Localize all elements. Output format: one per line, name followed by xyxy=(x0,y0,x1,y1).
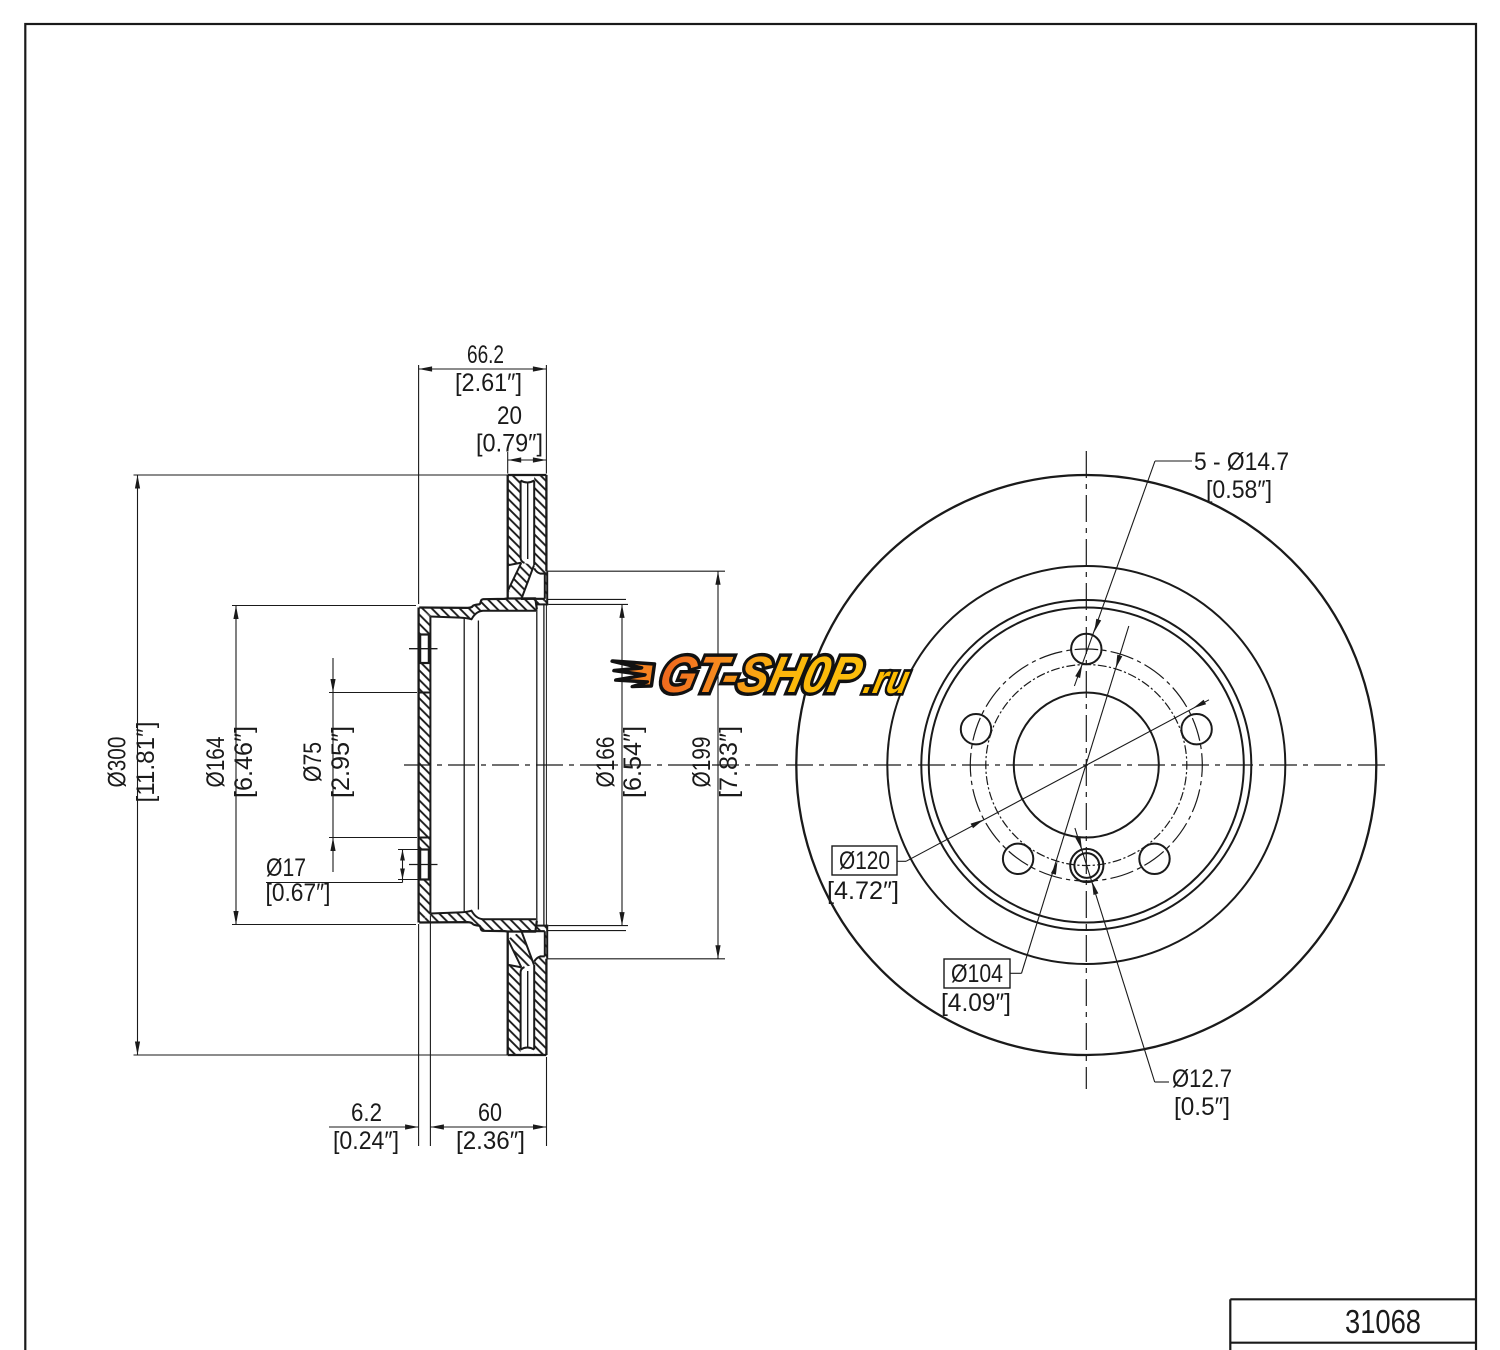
right plate bottom + flange slot top top xyxy=(534,568,545,573)
ring left plate face bottom xyxy=(507,931,509,1055)
ring left plate face top xyxy=(507,475,509,599)
flange outer face bottom xyxy=(546,926,548,959)
svg-text:Ø104: Ø104 xyxy=(951,960,1003,988)
front view hat flange circle xyxy=(921,600,1251,930)
hat wall outer edge + slot bottom seat bottom xyxy=(419,921,545,932)
svg-text:[2.61″]: [2.61″] xyxy=(455,369,522,397)
dim 6.2/0.24 xyxy=(418,924,420,1146)
vane strip right edge top xyxy=(521,565,534,599)
flange underside + diam166 extension top xyxy=(537,603,549,605)
locating pin hole outer diam17 xyxy=(1070,849,1103,882)
dim diam164/6.46 xyxy=(232,605,416,607)
section: flange neck (bottom, hatched) xyxy=(537,926,545,932)
leader diam12.7 xyxy=(1155,1081,1169,1083)
vent inlet lip bottom xyxy=(508,965,522,968)
hat wall inner edge top xyxy=(430,611,536,620)
svg-text:Ø12.7: Ø12.7 xyxy=(1172,1065,1232,1093)
front view center bore diam75 xyxy=(1014,693,1159,838)
flange slot (white) bottom xyxy=(521,931,544,965)
ring outer edge bottom xyxy=(508,1054,547,1056)
svg-text:[6.46″]: [6.46″] xyxy=(230,726,258,798)
ring outer edge top xyxy=(508,474,547,476)
dim 20/0.79 xyxy=(507,452,509,474)
bolt hole 4 xyxy=(1139,844,1169,874)
hat wall outer edge + slot bottom seat top xyxy=(419,598,545,609)
section: right plate (bottom, hatched) xyxy=(534,926,547,1055)
ring right face bottom xyxy=(545,959,547,1055)
front view horizontal centerline xyxy=(786,764,1388,766)
section: left plate (bottom, hatched) xyxy=(508,965,522,1055)
flange slot (white) xyxy=(521,565,544,599)
leader 5-diam14.7 xyxy=(1155,460,1192,462)
section: flange neck (top, hatched) xyxy=(537,598,545,604)
svg-text:[2.36″]: [2.36″] xyxy=(456,1127,525,1155)
vent inlet wedge (white) xyxy=(508,563,522,591)
svg-text:[0.79″]: [0.79″] xyxy=(476,430,543,458)
vent slot (white) xyxy=(521,480,535,566)
pin hole edges in face wall xyxy=(419,848,431,850)
svg-text:[6.54″]: [6.54″] xyxy=(619,726,647,798)
vent slot walls top xyxy=(521,481,535,566)
dim diam300/11.81 xyxy=(134,474,508,476)
svg-text:[0.24″]: [0.24″] xyxy=(333,1127,399,1155)
dim diam166/6.54 xyxy=(621,604,623,925)
vent inlet lip top xyxy=(508,563,522,566)
svg-text:Ø166: Ø166 xyxy=(592,737,620,788)
pin hole gap in face wall (white) xyxy=(419,850,429,880)
bolt hole centerline xyxy=(409,648,438,650)
svg-text:6.2: 6.2 xyxy=(351,1099,382,1127)
hat wall inner edge bottom xyxy=(430,911,536,920)
section: left plate (top, hatched) xyxy=(508,475,522,565)
dim 66.2/2.61 xyxy=(418,365,420,604)
svg-text:20: 20 xyxy=(497,402,522,430)
hub face inner surface xyxy=(429,617,431,914)
svg-text:[11.81″]: [11.81″] xyxy=(132,722,160,803)
svg-text:[4.72″]: [4.72″] xyxy=(827,877,899,905)
locating pin hole inner diam12.7 xyxy=(1074,853,1099,878)
seat silhouette line bottom xyxy=(547,930,626,932)
front view friction band inner circle xyxy=(887,566,1285,964)
front view vertical centerline xyxy=(1085,451,1087,1089)
section: vane strip (top, hatched) xyxy=(508,563,534,599)
vent slot (white) bottom xyxy=(521,965,535,1051)
dim diam17/0.67 xyxy=(398,849,419,851)
section: hub mounting face wall (hatched) xyxy=(419,608,431,923)
flange outer face top xyxy=(546,571,548,604)
interior silhouette lines xyxy=(463,618,465,912)
vane strip left edge bottom xyxy=(508,939,522,967)
bolt hole 5 xyxy=(1181,714,1211,744)
flange underside + diam166 extension bottom xyxy=(537,925,549,927)
bolt hole gap in face wall (white) xyxy=(419,635,429,664)
leader diam104 xyxy=(1008,972,1022,974)
bolt hole 2 xyxy=(961,714,991,744)
svg-text:Ø17: Ø17 xyxy=(266,854,306,882)
section: vane strip (bottom, hatched) xyxy=(508,931,534,967)
svg-text:66.2: 66.2 xyxy=(467,341,504,369)
hub bore top edge xyxy=(419,692,431,694)
leader diam120 xyxy=(897,860,906,862)
dim diam75/2.95 xyxy=(329,692,417,694)
section: hat wall (bottom, hatched) xyxy=(419,911,537,932)
seat silhouette line top xyxy=(547,598,626,600)
hub bore bottom edge xyxy=(419,837,431,839)
svg-text:[0.5″]: [0.5″] xyxy=(1174,1093,1230,1121)
bolt hole 3 xyxy=(1003,844,1033,874)
section: hat wall (top, hatched) xyxy=(419,598,537,619)
dim diam199/7.83 xyxy=(548,570,726,572)
svg-text:[4.09″]: [4.09″] xyxy=(941,989,1011,1017)
pin circle diam104 dash-dot xyxy=(986,665,1187,866)
svg-text:Ø120: Ø120 xyxy=(839,847,890,875)
bolt circle diam120 dash-dot xyxy=(970,649,1202,881)
section: right plate (top, hatched) xyxy=(534,475,547,604)
svg-text:Ø75: Ø75 xyxy=(299,742,327,782)
vent inlet wedge (white) bottom xyxy=(508,939,522,967)
vane strip left edge top xyxy=(508,563,522,591)
dim 60/2.36 xyxy=(430,1126,546,1128)
svg-text:[2.95″]: [2.95″] xyxy=(327,726,355,798)
svg-text:[0.58″]: [0.58″] xyxy=(1206,476,1272,504)
svg-text:Ø164: Ø164 xyxy=(202,736,230,787)
svg-text:60: 60 xyxy=(478,1099,502,1127)
right plate bottom + flange slot top bottom xyxy=(534,956,545,961)
svg-text:GT-SH0P: GT-SH0P xyxy=(654,646,868,703)
vent slot walls bottom xyxy=(521,965,535,1050)
section view horizontal centerline xyxy=(404,764,778,766)
front view hat cylinder circle diam166 xyxy=(929,608,1244,923)
ring right face top xyxy=(545,475,547,571)
bolt hole edges in face wall xyxy=(419,633,431,635)
bolt hole 1 xyxy=(1071,634,1101,664)
vane strip right edge bottom xyxy=(521,931,534,965)
flange slot right edge top xyxy=(544,574,546,599)
vane silhouette in vent bottom xyxy=(527,971,529,1048)
svg-text:5 - Ø14.7: 5 - Ø14.7 xyxy=(1194,448,1289,476)
title block xyxy=(1230,1298,1476,1300)
front view outer circle diam300 xyxy=(796,475,1376,1055)
hub face outer surface xyxy=(417,608,419,923)
svg-text:Ø300: Ø300 xyxy=(104,737,132,788)
pin hole centerline xyxy=(409,864,438,866)
svg-text:31068: 31068 xyxy=(1345,1303,1421,1340)
svg-text:[0.67″]: [0.67″] xyxy=(266,879,331,907)
svg-text:Ø199: Ø199 xyxy=(688,737,716,788)
flange slot right edge bottom xyxy=(544,931,546,956)
svg-text:[7.83″]: [7.83″] xyxy=(715,726,743,798)
vane silhouette in vent top xyxy=(527,482,529,559)
